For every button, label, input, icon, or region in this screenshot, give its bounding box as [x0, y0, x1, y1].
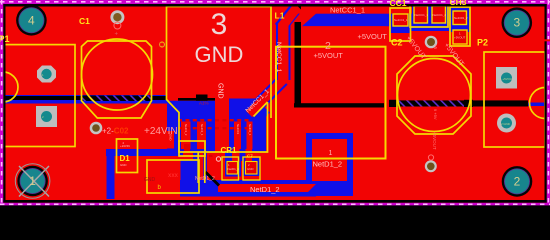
svg-text:GND: GND — [144, 177, 156, 183]
svg-text:1 +5VOU: 1 +5VOU — [500, 77, 512, 81]
svg-text:NetD1_1: NetD1_1 — [228, 167, 240, 171]
svg-text:D1: D1 — [120, 154, 131, 163]
svg-text:NetD1_2: NetD1_2 — [313, 160, 343, 169]
svg-text:2: 2 — [514, 174, 521, 188]
svg-text:C1: C1 — [79, 16, 90, 26]
svg-text:NetCC1_1: NetCC1_1 — [415, 13, 429, 17]
svg-text:+5VOUT: +5VOUT — [314, 51, 344, 60]
svg-text:NetCR1_2: NetCR1_2 — [454, 16, 468, 20]
svg-text:GND: GND — [120, 163, 126, 167]
svg-text:P1: P1 — [0, 34, 10, 44]
svg-text:NetCC1_1: NetCC1_1 — [330, 5, 365, 14]
svg-text:CC1: CC1 — [390, 0, 407, 8]
svg-text:GND: GND — [195, 42, 244, 67]
svg-text:NetD1_2: NetD1_2 — [250, 185, 280, 194]
svg-text:2: 2 — [325, 40, 331, 52]
svg-text:GND: GND — [247, 167, 253, 171]
svg-text:CR1: CR1 — [221, 146, 238, 155]
svg-text:GND: GND — [217, 83, 224, 99]
svg-text:CH3: CH3 — [450, 0, 467, 7]
svg-text:P2: P2 — [477, 38, 488, 48]
svg-text:NetD1_2: NetD1_2 — [195, 176, 215, 182]
svg-text:+5VOUT: +5VOUT — [358, 32, 388, 41]
svg-text:NetC1_1: NetC1_1 — [200, 124, 204, 136]
svg-text:9 +5V: 9 +5V — [433, 109, 438, 120]
svg-text:L1: L1 — [275, 11, 285, 21]
svg-text:C1: C1 — [159, 43, 166, 49]
svg-text:+5VOUT: +5VOUT — [454, 36, 466, 40]
svg-text:GND: GND — [169, 134, 173, 140]
svg-text:A1%: A1% — [199, 101, 209, 106]
svg-text:NetC1_2: NetC1_2 — [184, 124, 188, 136]
svg-text:+5VOUT: +5VOUT — [432, 132, 437, 150]
svg-text:NetCC1_1: NetCC1_1 — [394, 18, 408, 22]
svg-text:+: + — [115, 32, 119, 38]
svg-text:4: 4 — [28, 13, 35, 27]
svg-text:xxx: xxx — [168, 173, 179, 179]
svg-text:3: 3 — [211, 8, 228, 41]
svg-text:1: 1 — [329, 150, 333, 157]
svg-text:1: 1 — [29, 174, 36, 188]
svg-text:C2: C2 — [391, 38, 403, 48]
svg-text:+2-C02: +2-C02 — [102, 127, 129, 136]
svg-text:+24VIN: +24VIN — [120, 144, 130, 148]
svg-text:NetCC1_2: NetCC1_2 — [433, 13, 447, 17]
svg-text:NetCC1: NetCC1 — [236, 124, 240, 135]
svg-text:3: 3 — [513, 16, 520, 30]
svg-text:C7: C7 — [247, 154, 253, 159]
svg-text:NetD1_1: NetD1_1 — [248, 124, 252, 136]
svg-text:2 GND: 2 GND — [501, 122, 510, 126]
svg-text:+5: +5 — [433, 44, 438, 50]
svg-text:NetCC1_1: NetCC1_1 — [275, 42, 282, 73]
